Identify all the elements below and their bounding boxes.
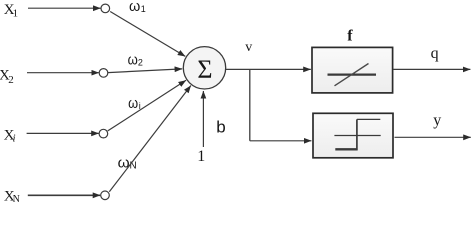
svg-text:y: y (433, 112, 441, 129)
svg-text:Σ: Σ (197, 55, 212, 84)
svg-text:i: i (13, 132, 16, 144)
input label X1 (4, 2, 18, 20)
svg-text:v: v (245, 40, 252, 55)
wire w1 to summer (110, 12, 185, 57)
svg-text:1: 1 (197, 148, 205, 165)
wire w2 to summer (108, 69, 182, 73)
wire v (226, 68, 311, 70)
svg-text:b: b (216, 118, 225, 137)
weight label w2 (128, 52, 143, 69)
wire wN to summer (109, 86, 191, 192)
block F1 linear activation (312, 47, 393, 93)
node Xi circle (99, 129, 108, 138)
F2 step upper segment (357, 118, 380, 120)
svg-text:q: q (431, 45, 439, 62)
node XN circle (101, 191, 110, 200)
node X1 circle (101, 4, 110, 13)
svg-text:N: N (130, 161, 137, 172)
wire XN (28, 194, 101, 196)
F2 axis line (334, 135, 380, 137)
svg-text:f: f (347, 28, 353, 45)
wire to lower block (250, 140, 312, 142)
svg-text:ω: ω (128, 95, 138, 112)
svg-text:2: 2 (8, 74, 14, 86)
F1 linear diagonal (335, 64, 369, 86)
wire wi to summer (108, 80, 186, 131)
input label XN (4, 188, 20, 205)
F2 step vertical segment (356, 119, 358, 150)
input label X2 (0, 68, 14, 86)
block F2 step activation (313, 113, 393, 158)
bias wire b (202, 91, 204, 147)
svg-text:2: 2 (138, 58, 143, 68)
svg-text:ω: ω (118, 155, 130, 172)
F1 axis line (328, 73, 377, 75)
junction wire down (249, 69, 251, 140)
summer U1 circle (183, 47, 225, 89)
svg-text:ω: ω (128, 52, 138, 69)
svg-text:1: 1 (141, 4, 146, 14)
weight label wi (128, 95, 141, 112)
wire X2 (27, 72, 99, 74)
svg-text:ω: ω (129, 0, 141, 15)
F2 step lower segment (335, 148, 357, 150)
svg-text:1: 1 (13, 8, 19, 20)
node X2 circle (99, 69, 108, 78)
wire y (395, 136, 471, 138)
weight label wN (118, 155, 137, 172)
input label Xi (4, 128, 16, 145)
wire Xi (27, 132, 99, 134)
wire q (393, 68, 470, 70)
svg-text:N: N (13, 194, 20, 204)
weight label w1 (129, 0, 146, 15)
wire X1 (28, 7, 101, 9)
